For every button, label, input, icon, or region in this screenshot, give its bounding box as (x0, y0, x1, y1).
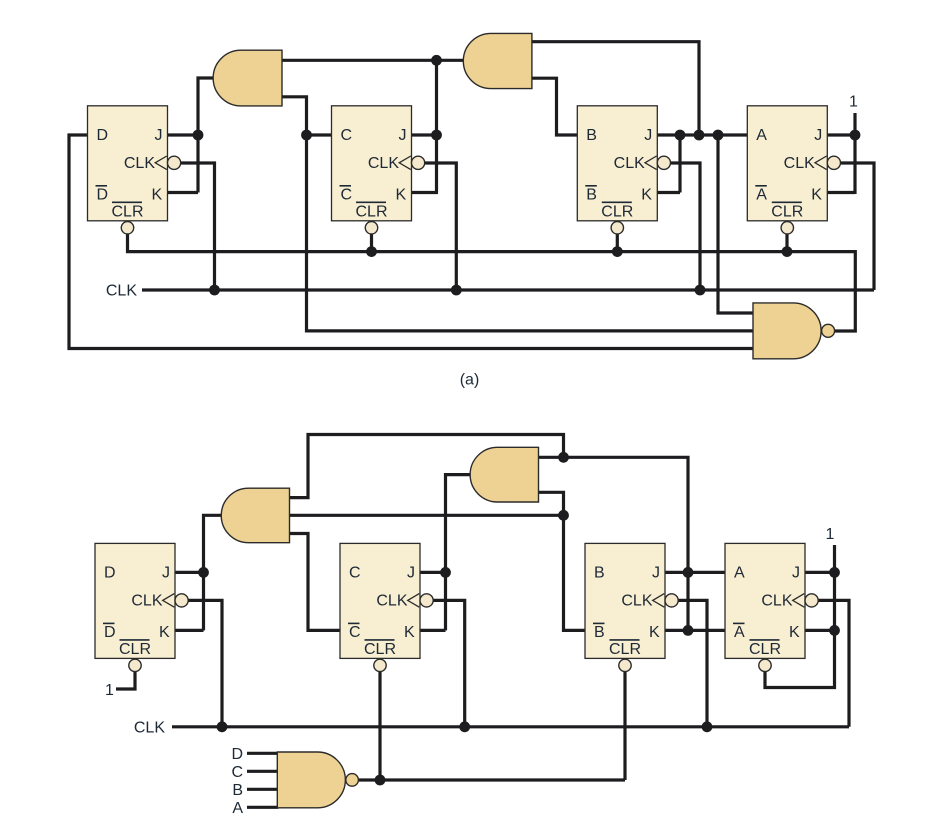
NAND gate U6 (decode DCBA, circuit b) output bubble (346, 774, 359, 787)
node: J-K tie of FF B junction (675, 130, 686, 141)
svg-text:K: K (649, 624, 660, 641)
svg-text:CLR: CLR (355, 203, 387, 220)
wire: FF B clock bubble to CLK bus (671, 163, 701, 290)
flip-flop D of circuit (b) (J-K, box) (95, 543, 188, 671)
node: net Bbar at AND U3 middle input junction (558, 510, 569, 521)
node: CLR bus tap FF B (612, 246, 623, 257)
wire: Q of FF A to J input of FF B (net A) (656, 133, 749, 136)
NAND gate U6 (decode DCBA, circuit b) (points right) (277, 752, 345, 808)
svg-text:K: K (404, 624, 415, 641)
svg-text:A: A (756, 187, 767, 204)
wire: Q of FF A to J of FF B (net A, circuit b) (664, 571, 727, 574)
wire: FF A clock bubble to CLK bus right end (840, 163, 874, 290)
flip-flop B of circuit (a) (J-K, box) (577, 106, 670, 234)
node: logic 1 at K of FF A (b) junction (829, 625, 840, 636)
svg-text:C: C (341, 127, 353, 144)
wire: AND U2 top input from net A (532, 42, 699, 137)
node: net AB junction at AND U1 input (431, 55, 442, 66)
node: net A to NAND U5 junction (713, 130, 724, 141)
wire: AND U4 top input from net A (b) (539, 457, 689, 632)
svg-text:CLK: CLK (621, 592, 652, 609)
svg-text:D: D (231, 746, 243, 763)
svg-text:1: 1 (849, 93, 858, 110)
svg-text:K: K (641, 187, 652, 204)
svg-text:CLR: CLR (601, 203, 633, 220)
wire: AND U3 bottom input from Cbar of FF C (b) (290, 534, 342, 631)
wire: K input of FF D (b) (174, 629, 204, 632)
node: J-K of FF C junction (431, 130, 442, 141)
wire: logic 1 to J and K of FF A (853, 113, 856, 194)
wire: AND U1 output to J-K of FF D (net JD) (198, 78, 215, 193)
svg-text:D: D (97, 127, 109, 144)
node: net C junction (301, 130, 312, 141)
wire: CLK bus of circuit (a) (142, 288, 874, 291)
svg-text:B: B (232, 782, 243, 799)
flip-flop A of circuit (a) (J-K, box) (747, 106, 840, 234)
svg-text:B: B (594, 624, 605, 641)
flip-flop D of circuit (a) (J-K, box) (88, 106, 181, 234)
svg-text:J: J (792, 565, 800, 582)
wire: CLK bus of circuit (b) (172, 725, 849, 728)
node: NAND U6 output to FF C CLR junction (375, 775, 386, 786)
wire: net A down to NAND U5 top input (718, 134, 754, 314)
wire: FF C clock bubble to CLK bus (425, 163, 457, 290)
NAND gate U5 (decode, circuit a) (points right) (753, 303, 821, 359)
node: J-K of FF C (b) junction (440, 567, 451, 578)
svg-text:D: D (104, 624, 116, 641)
svg-text:CLK: CLK (106, 283, 137, 300)
wire: NAND U6 input stub D (247, 752, 279, 755)
svg-text:K: K (396, 187, 407, 204)
wire: FF B (b) CLR down to NAND U6 output (623, 671, 626, 780)
wire: K input stub of FF A (b) (804, 629, 835, 632)
svg-text:J: J (155, 127, 163, 144)
node: CLR bus tap FF C (366, 246, 377, 257)
wire: NAND U6 input stub A (247, 806, 279, 809)
wire: K input of FF C (b) (419, 629, 446, 632)
wire: FF A (b) clock bubble to CLK bus right end (818, 600, 850, 726)
wire: K input of FF B (656, 191, 680, 194)
svg-text:(a): (a) (460, 372, 480, 389)
AND gate U1 (3-bit carry, circuit a) (points left) (213, 50, 282, 106)
wire: FF A CLR stub to CLR bus (785, 234, 788, 252)
node: CLK bus tap FF B (695, 285, 706, 296)
svg-text:J: J (644, 127, 652, 144)
wire: K input of FF C (410, 191, 438, 194)
svg-text:CLK: CLK (614, 155, 645, 172)
svg-text:J: J (399, 127, 407, 144)
svg-text:CLR: CLR (119, 641, 151, 658)
wire: J input stub of FF A (826, 133, 856, 136)
wire: AND U3 output to J-K of FF D (circuit b) (204, 515, 224, 630)
svg-text:CLK: CLK (784, 155, 815, 172)
svg-text:J: J (652, 565, 660, 582)
wire: FF D clock bubble to CLK bus (180, 163, 215, 290)
node: CLK bus (b) tap FF C (459, 721, 470, 732)
flip-flop A of circuit (b) (J-K, box) (725, 543, 818, 671)
wire: CLR bus of circuit (a) from FF D CLR to NAND U5 output (128, 234, 856, 332)
AND gate U2 (A AND B, circuit a) (points left) (463, 33, 532, 88)
node: net Bbar at AND U4 top input junction (558, 452, 569, 463)
svg-text:CLK: CLK (134, 719, 165, 736)
svg-text:1: 1 (105, 682, 114, 699)
svg-text:D: D (97, 187, 109, 204)
svg-text:B: B (586, 187, 597, 204)
wire: J input stub of FF D (b) (174, 571, 205, 574)
wire: Q output stub of FF C (307, 133, 333, 136)
wire: logic 1 to J-K of FF A and CLR of FF A (circuit b) (765, 545, 835, 688)
node: CLR bus tap FF A (782, 246, 793, 257)
svg-text:1: 1 (826, 526, 835, 543)
wire: J input stub of FF A (b) (804, 571, 835, 574)
svg-text:CLR: CLR (111, 203, 143, 220)
svg-text:A: A (734, 624, 745, 641)
wire: FF C (b) clock bubble to CLK bus (433, 600, 465, 726)
svg-text:D: D (104, 565, 116, 582)
wire: J input stub of FF C (410, 133, 438, 136)
wire: AND U3 top input loop over to net Bbar junction (290, 435, 564, 498)
wire: NAND U6 input stub C (247, 770, 279, 773)
svg-text:A: A (756, 127, 767, 144)
node: CLK bus tap FF D (209, 285, 220, 296)
svg-text:A: A (232, 800, 243, 817)
wire: AND U4 bottom input from Bbar of FF B (b) (539, 492, 587, 630)
svg-text:J: J (162, 565, 170, 582)
wire: FF D (b) clock bubble to CLK bus (188, 600, 223, 726)
wire: AND U2 output to AND U1 top input (net AB) (282, 59, 464, 62)
wire: AND U3 middle input from net Bbar (290, 514, 566, 517)
flip-flop B of circuit (b) (J-K, box) (585, 543, 678, 671)
svg-text:CLK: CLK (761, 592, 792, 609)
svg-text:J: J (814, 127, 822, 144)
svg-text:K: K (789, 624, 800, 641)
svg-text:CLK: CLK (131, 592, 162, 609)
wire: NAND U6 input stub B (247, 788, 279, 791)
node: logic 1 at J of FF A (b) junction (829, 567, 840, 578)
node: logic 1 to J of FF A junction (850, 130, 861, 141)
wire: K input of FF D (166, 191, 198, 194)
wire: FF B CLR stub to CLR bus (616, 234, 619, 252)
wire: AND U1 bottom input from Q of FF C and to NAND U5 middle input (net C) (282, 97, 754, 331)
wire: AND U2 bottom input from Q of FF B (net B) (532, 78, 579, 135)
node: net A to AND U2 junction (694, 130, 705, 141)
wire: J input stub of FF D (166, 133, 200, 136)
wire: K input of FF A (826, 191, 856, 194)
node: CLK bus (b) tap FF D (217, 721, 228, 732)
svg-text:A: A (734, 565, 745, 582)
wire: net AB down to J-K of FF C (435, 60, 438, 192)
node: CLK bus (b) tap FF B (702, 721, 713, 732)
flip-flop C of circuit (b) (J-K, box) (340, 543, 433, 671)
AND gate U3 (circuit b) (points left) (221, 488, 289, 543)
svg-text:B: B (594, 565, 605, 582)
svg-text:C: C (349, 565, 361, 582)
wire: AND U4 output to J-K of FF C (b) (446, 475, 473, 631)
svg-text:C: C (341, 187, 353, 204)
svg-text:CLK: CLK (368, 155, 399, 172)
node: net A at K of FF B (b) junction (683, 625, 694, 636)
node: J-K of FF D (b) junction (198, 567, 209, 578)
node: J-K of FF D junction (193, 130, 204, 141)
wire: Q output of FF D down left side to NAND U5 bottom input (net D) (69, 135, 754, 349)
node: net A at J of FF B (b) junction (683, 567, 694, 578)
wire: NAND U6 output line (358, 778, 626, 781)
node: CLK bus tap FF C (451, 285, 462, 296)
wire: FF D (b) CLR to logic 1 (116, 671, 135, 689)
svg-text:CLR: CLR (749, 641, 781, 658)
NAND gate U5 (decode, circuit a) output bubble (822, 324, 835, 337)
svg-text:CLR: CLR (771, 203, 803, 220)
svg-text:CLK: CLK (124, 155, 155, 172)
svg-text:CLR: CLR (609, 641, 641, 658)
svg-text:CLR: CLR (364, 641, 396, 658)
svg-text:J: J (407, 565, 415, 582)
svg-text:K: K (811, 187, 822, 204)
wire: K of FF B to Abar of FF A (circuit b) (664, 629, 727, 632)
svg-text:B: B (586, 127, 597, 144)
wire: J input stub of FF C (b) (419, 571, 448, 574)
wire: FF B (b) clock bubble to CLK bus (671, 600, 707, 726)
wire: FF C CLR stub to CLR bus (370, 234, 373, 252)
svg-text:C: C (349, 624, 361, 641)
flip-flop C of circuit (a) (J-K, box) (332, 106, 425, 234)
wire: J-K tie of FF B (678, 134, 681, 193)
svg-text:CLK: CLK (376, 592, 407, 609)
svg-text:C: C (231, 764, 243, 781)
svg-text:K: K (152, 187, 163, 204)
svg-text:K: K (159, 624, 170, 641)
AND gate U4 (circuit b) (points left) (470, 447, 538, 502)
wire: FF C (b) CLR down to NAND U6 output (378, 671, 381, 780)
